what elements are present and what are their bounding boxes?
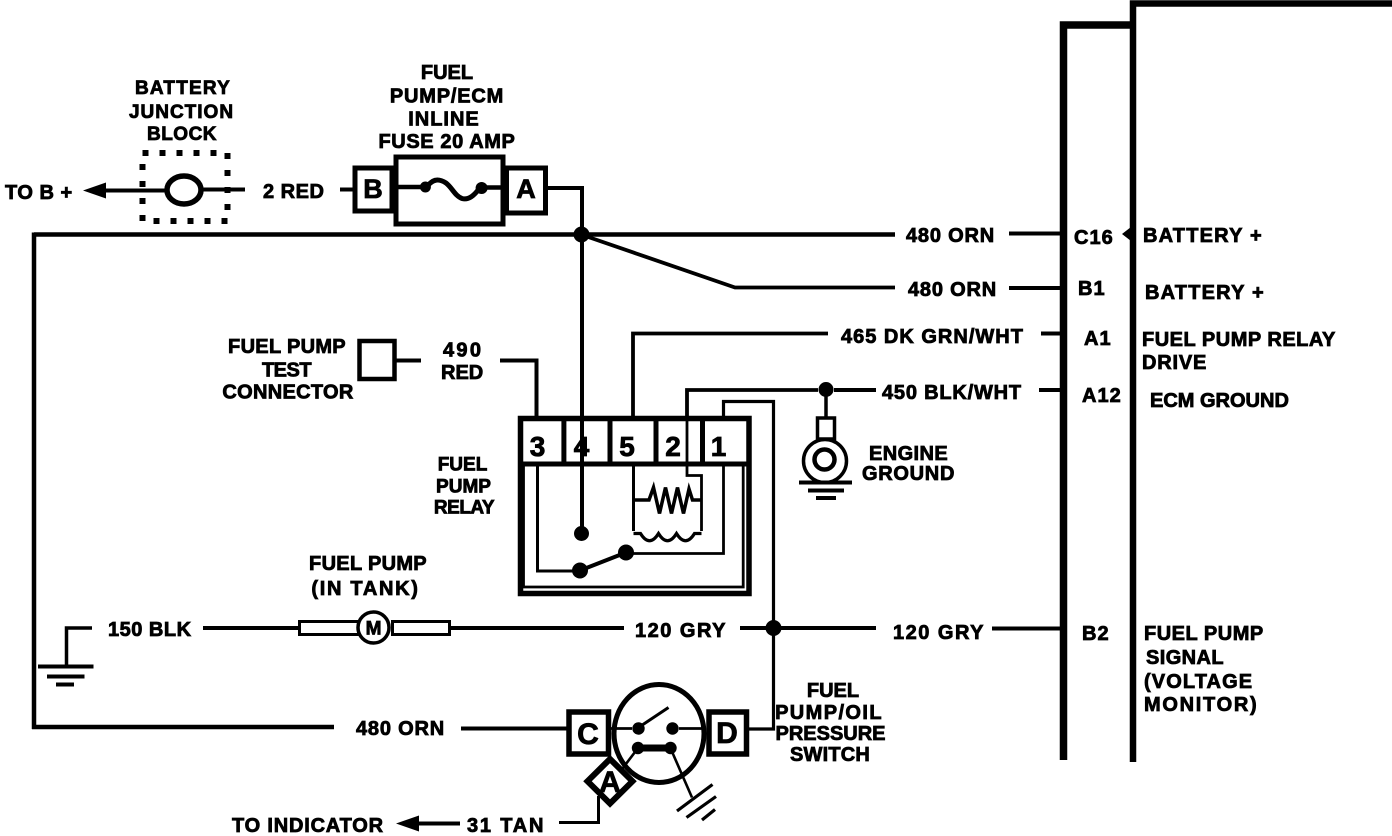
fuse terminal A bbox=[507, 168, 546, 213]
wire 450 BLK/WHT relay pin 2 to A12 bbox=[687, 390, 818, 417]
svg-text:FUEL PUMP: FUEL PUMP bbox=[309, 553, 427, 575]
case ground hatch bbox=[677, 785, 716, 821]
svg-text:450 BLK/WHT: 450 BLK/WHT bbox=[882, 382, 1022, 404]
wire dash to B1 bbox=[1009, 286, 1064, 290]
svg-text:BLOCK: BLOCK bbox=[147, 124, 217, 145]
relay pin divider 3/4 bbox=[561, 418, 566, 464]
svg-text:MONITOR): MONITOR) bbox=[1144, 694, 1258, 716]
svg-text:D: D bbox=[716, 717, 738, 750]
relay pin strip bottom line bbox=[518, 462, 751, 467]
wire 2 RED to fuse pin B bbox=[340, 188, 356, 192]
relay switch arm bbox=[580, 553, 626, 571]
wire dash to A1 bbox=[1041, 332, 1064, 336]
svg-text:FUEL PUMP: FUEL PUMP bbox=[1144, 623, 1264, 645]
svg-text:TEST: TEST bbox=[262, 360, 311, 382]
wire 150 BLK to pump bbox=[203, 626, 300, 630]
fuse element bbox=[398, 180, 501, 199]
svg-text:5: 5 bbox=[619, 431, 635, 462]
wire relay pin 2 to coil bbox=[687, 418, 702, 531]
svg-text:PUMP/ECM: PUMP/ECM bbox=[390, 86, 504, 108]
svg-text:B1: B1 bbox=[1078, 278, 1106, 300]
relay pin divider 5/2 bbox=[654, 418, 659, 464]
svg-text:(VOLTAGE: (VOLTAGE bbox=[1144, 671, 1253, 693]
relay coil resistance zigzag bbox=[634, 488, 702, 514]
label FUEL PUMP RELAY DRIVE bbox=[1142, 329, 1336, 374]
ground G2 symbol (tank) bbox=[38, 628, 94, 685]
fuel pump (in tank) label bbox=[309, 553, 427, 600]
wire node to A12 dash bbox=[834, 388, 876, 392]
fuel pump test connector label bbox=[222, 336, 353, 404]
svg-text:BATTERY: BATTERY bbox=[135, 78, 231, 99]
svg-text:2: 2 bbox=[665, 431, 681, 462]
battery junction block terminal circle bbox=[167, 176, 201, 204]
svg-text:RELAY: RELAY bbox=[434, 498, 495, 519]
svg-text:480 ORN: 480 ORN bbox=[906, 225, 995, 247]
svg-text:A: A bbox=[599, 766, 621, 799]
wire 480 ORN to pressure switch C bbox=[461, 727, 570, 731]
fuel pump relay label bbox=[434, 455, 495, 519]
relay coil winding scallops bbox=[634, 534, 702, 541]
svg-text:FUEL: FUEL bbox=[807, 680, 859, 702]
relay pin divider 2/1 bbox=[700, 418, 705, 464]
switch contact node bbox=[618, 545, 634, 561]
ECM body outline bbox=[1133, 4, 1392, 763]
svg-text:B: B bbox=[363, 174, 383, 204]
svg-text:120 GRY: 120 GRY bbox=[635, 620, 727, 642]
node engine ground tap bbox=[819, 382, 834, 397]
svg-text:3: 3 bbox=[530, 431, 546, 462]
wire 465 DK GRN/WHT relay pin 5 to A1 bbox=[633, 334, 828, 418]
svg-text:BATTERY +: BATTERY + bbox=[1143, 225, 1263, 247]
svg-text:490: 490 bbox=[443, 340, 483, 362]
svg-text:B2: B2 bbox=[1082, 623, 1110, 645]
svg-text:PUMP/OIL: PUMP/OIL bbox=[775, 702, 883, 724]
svg-text:465 DK GRN/WHT: 465 DK GRN/WHT bbox=[841, 326, 1024, 348]
svg-text:A12: A12 bbox=[1082, 385, 1122, 407]
svg-text:RED: RED bbox=[441, 362, 483, 384]
svg-text:(IN TANK): (IN TANK) bbox=[311, 578, 419, 600]
switch contact wire left bbox=[611, 727, 632, 730]
svg-text:A: A bbox=[516, 174, 536, 204]
svg-text:C: C bbox=[577, 718, 599, 751]
svg-text:4: 4 bbox=[574, 431, 590, 462]
wire dash to C16 bbox=[1009, 232, 1064, 236]
junction node 480 ORN bbox=[574, 227, 590, 243]
svg-text:FUEL PUMP RELAY: FUEL PUMP RELAY bbox=[1142, 329, 1336, 351]
wire pump to 120 GRY bbox=[449, 626, 624, 630]
wire 480 ORN left branch vertical bbox=[32, 233, 37, 730]
svg-text:SWITCH: SWITCH bbox=[790, 744, 870, 766]
wire 120 GRY to B2 bbox=[992, 627, 1064, 631]
svg-text:480 ORN: 480 ORN bbox=[356, 718, 445, 740]
terminal C box bbox=[569, 712, 609, 754]
svg-text:PRESSURE: PRESSURE bbox=[775, 723, 885, 745]
wire switch contact to pin 1 bbox=[632, 466, 724, 554]
svg-text:TO B +: TO B + bbox=[5, 182, 73, 204]
svg-text:120 GRY: 120 GRY bbox=[893, 622, 985, 644]
wire 490 RED to relay pin 3 bbox=[500, 361, 537, 419]
switch contact wire right bbox=[679, 727, 706, 730]
svg-text:ECM GROUND: ECM GROUND bbox=[1150, 390, 1289, 412]
label 490 RED bbox=[441, 340, 483, 385]
wire to B+ with arrowhead bbox=[83, 183, 167, 199]
svg-text:M: M bbox=[366, 619, 382, 640]
svg-text:JUNCTION: JUNCTION bbox=[129, 102, 234, 123]
fuse body bbox=[396, 157, 503, 224]
wire terminal A to 31 TAN bbox=[559, 796, 599, 823]
svg-text:FUSE 20 AMP: FUSE 20 AMP bbox=[378, 131, 515, 153]
svg-text:FUEL PUMP: FUEL PUMP bbox=[228, 336, 346, 358]
wire circle to 2 RED bbox=[201, 188, 245, 192]
wire dash 120 GRY to junction bbox=[740, 626, 766, 630]
switch contact node left bbox=[632, 722, 644, 734]
wire 480 ORN to C16 bbox=[34, 232, 895, 237]
svg-text:C16: C16 bbox=[1074, 227, 1114, 249]
wire junction to 120 GRY right bbox=[781, 626, 876, 630]
svg-text:PUMP: PUMP bbox=[436, 477, 491, 498]
fuel pump test connector body bbox=[360, 341, 395, 379]
fuel pump motor M1 bbox=[300, 612, 450, 643]
svg-text:CONNECTOR: CONNECTOR bbox=[222, 382, 353, 404]
svg-text:INLINE: INLINE bbox=[408, 109, 480, 131]
svg-text:ENGINE: ENGINE bbox=[869, 443, 948, 465]
svg-text:31 TAN: 31 TAN bbox=[467, 815, 545, 836]
lower contact bar bbox=[632, 742, 677, 754]
node at relay pin 4 bbox=[574, 526, 589, 541]
svg-text:GROUND: GROUND bbox=[862, 463, 955, 485]
wire to indicator with arrowhead bbox=[396, 816, 460, 832]
wire 480 ORN branch to B1 bbox=[581, 235, 895, 288]
wire dash to A12 bbox=[1039, 388, 1064, 392]
svg-text:DRIVE: DRIVE bbox=[1142, 352, 1207, 374]
wire lower contact to case ground bbox=[672, 751, 693, 798]
ECM connector face C1 bbox=[1064, 25, 1134, 760]
svg-text:2 RED: 2 RED bbox=[263, 181, 324, 203]
svg-text:A1: A1 bbox=[1084, 328, 1112, 350]
battery junction block dotted box bbox=[143, 153, 228, 221]
wire relay pin 1 to pressure switch D bbox=[724, 402, 774, 730]
tick at C16 bbox=[1122, 227, 1131, 241]
switch pivot node bbox=[572, 563, 588, 579]
wire relay pin 3 to switch pivot bbox=[538, 466, 575, 571]
svg-text:SIGNAL: SIGNAL bbox=[1146, 647, 1224, 669]
terminal A diamond bbox=[588, 759, 633, 804]
terminal D box bbox=[709, 712, 747, 754]
pressure switch arm bbox=[640, 708, 669, 727]
svg-text:1: 1 bbox=[711, 431, 727, 462]
svg-text:BATTERY +: BATTERY + bbox=[1145, 282, 1265, 304]
svg-text:FUEL: FUEL bbox=[421, 62, 473, 84]
svg-text:TO INDICATOR: TO INDICATOR bbox=[232, 815, 384, 836]
svg-text:480 ORN: 480 ORN bbox=[908, 279, 997, 301]
test connector stub bbox=[395, 359, 421, 363]
relay K1 outer box bbox=[521, 419, 750, 594]
relay pin divider 4/5 bbox=[608, 418, 613, 464]
fuse terminal B bbox=[355, 168, 392, 211]
fuel pump/oil pressure switch body bbox=[614, 685, 704, 783]
relay coil left lead bbox=[632, 466, 635, 531]
svg-text:FUEL: FUEL bbox=[438, 455, 488, 476]
switch contact node right bbox=[666, 722, 678, 734]
junction node 120 GRY bbox=[766, 620, 782, 636]
label FUEL PUMP SIGNAL (VOLTAGE MONITOR) bbox=[1144, 623, 1264, 716]
wire 480 ORN bottom run bbox=[32, 725, 334, 730]
relay inner liner bbox=[524, 466, 744, 587]
svg-text:150 BLK: 150 BLK bbox=[108, 619, 192, 641]
wire fuse A to relay pin 4 bbox=[548, 188, 582, 530]
fuel pump/oil pressure switch label bbox=[775, 680, 885, 766]
wire lower contact to terminal A bbox=[621, 750, 637, 771]
fuse F1 label bbox=[378, 62, 515, 153]
engine ground G1 symbol bbox=[799, 395, 852, 498]
engine ground label bbox=[862, 443, 955, 485]
battery junction block label bbox=[129, 78, 234, 145]
